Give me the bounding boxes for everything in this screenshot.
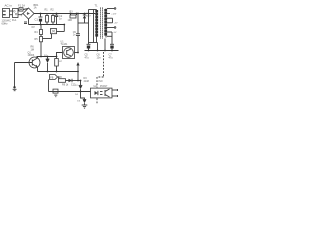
node: C1 top junction bbox=[40, 13, 42, 15]
capacitor C4 (secondary, polarized) bbox=[110, 44, 114, 50]
node: D2 junctions bbox=[47, 56, 49, 58]
resistor R3 (snubber, below rail) bbox=[70, 14, 77, 19]
wire plug to filter (upper) bbox=[10, 10, 13, 12]
wire: U1 right pin bbox=[75, 52, 79, 54]
wire: FB tag drop bbox=[48, 80, 50, 92]
wire: divider link bbox=[43, 38, 52, 40]
wire: U1 left pin to control bus bbox=[57, 53, 63, 57]
wire: primary return to bus bbox=[97, 43, 99, 51]
capacitor C2 bbox=[55, 14, 59, 25]
node: feedback junction bbox=[77, 13, 79, 15]
resistor R2 bbox=[52, 14, 55, 25]
wire: primary branch down at x88 bbox=[88, 14, 90, 45]
transformer T1 primary winding bbox=[95, 10, 98, 38]
diode D2 bbox=[46, 57, 50, 72]
svg-text:0V: 0V bbox=[32, 25, 35, 29]
wire: Q1 base bbox=[15, 62, 33, 64]
resistor R4 bbox=[40, 25, 43, 35]
wire: secondary tap 3 bbox=[107, 17, 113, 19]
node: C2 junction bbox=[56, 13, 58, 15]
node: C1 bottom junction bbox=[40, 24, 42, 26]
wire filter to fuse bbox=[18, 10, 19, 12]
wire: divider chain from return rail bbox=[63, 24, 65, 26]
wire: bridge bottom to return rail bbox=[28, 19, 30, 25]
wire: secondary tap 7 bbox=[107, 35, 112, 37]
svg-text:PC817: PC817 bbox=[100, 85, 108, 88]
wire: tap 3-4 link bbox=[112, 18, 114, 23]
svg-text:FL1: FL1 bbox=[12, 18, 17, 22]
svg-text:R7: R7 bbox=[59, 61, 63, 63]
svg-text:47u: 47u bbox=[109, 56, 114, 59]
svg-text:TL431: TL431 bbox=[61, 43, 68, 46]
svg-text:+5V: +5V bbox=[114, 23, 118, 25]
wire: emitter rail bbox=[38, 71, 79, 73]
svg-text:1M: 1M bbox=[31, 48, 34, 51]
wire: rectified DC rail bbox=[34, 13, 95, 15]
svg-text:1A: 1A bbox=[34, 7, 37, 10]
svg-text:60Hz: 60Hz bbox=[2, 21, 9, 25]
svg-text:10R: 10R bbox=[68, 19, 73, 22]
wire filter to bridge left vertex (lower) bbox=[18, 14, 23, 15]
node: tap 1 terminal bbox=[114, 8, 116, 10]
wire: opto output upper bbox=[112, 89, 118, 91]
capacitor C9 (on feedback vertical) bbox=[76, 14, 80, 53]
transformer T1 core bbox=[101, 8, 103, 39]
svg-text:R3: R3 bbox=[70, 10, 74, 13]
node: bus junctions bbox=[88, 50, 90, 52]
svg-text:T1: T1 bbox=[95, 4, 99, 8]
capacitor C1 (polarized) bbox=[39, 14, 43, 25]
isolation barrier (dashed) bbox=[97, 52, 104, 104]
AC plug P1 bbox=[3, 9, 10, 18]
capacitor C8 (startup) bbox=[51, 29, 57, 34]
svg-text:R4: R4 bbox=[35, 31, 39, 34]
wire: secondary tap 4 bbox=[107, 22, 113, 24]
node: D4 junctions bbox=[80, 80, 82, 82]
node: control bus junction bbox=[40, 56, 42, 58]
label: C1 voltage marks bbox=[24, 21, 27, 23]
svg-text:R5: R5 bbox=[35, 38, 39, 41]
svg-text:FB: FB bbox=[50, 77, 53, 80]
wire: return rail bbox=[29, 24, 65, 26]
wire: C8 to divider bbox=[51, 34, 53, 39]
svg-text:D4: D4 bbox=[75, 94, 79, 96]
wire: control bus bbox=[37, 56, 57, 58]
wire fuse to bridge top vertex bbox=[23, 9, 29, 10]
fuse F1 bbox=[19, 8, 23, 11]
control IC U1 (regulator in can) bbox=[63, 47, 75, 59]
svg-text:1V: 1V bbox=[75, 85, 78, 87]
net tag FB bbox=[50, 75, 58, 80]
node: D1 junction bbox=[84, 13, 86, 15]
wire: primary left vertical bbox=[93, 10, 95, 43]
svg-text:4148: 4148 bbox=[84, 80, 90, 83]
optocoupler U2 bbox=[91, 88, 113, 98]
node: tap 5 terminal bbox=[114, 27, 116, 29]
node: x88 junction bbox=[88, 13, 90, 15]
svg-text:AC in: AC in bbox=[5, 4, 13, 8]
svg-text:13003: 13003 bbox=[28, 54, 35, 57]
resistor R7 bbox=[55, 57, 59, 72]
node: R3 junctions bbox=[70, 13, 72, 15]
svg-text:R2: R2 bbox=[51, 9, 55, 12]
wire: opto output lower bbox=[112, 95, 118, 97]
capacitor C3 (sense, polarized) bbox=[87, 44, 91, 50]
svg-text:1n: 1n bbox=[73, 34, 76, 37]
resistor R5 bbox=[40, 35, 43, 57]
svg-text:0V: 0V bbox=[114, 32, 117, 34]
node: rail junction at x77 bbox=[77, 80, 79, 82]
svg-text:R9 1k: R9 1k bbox=[62, 83, 69, 86]
svg-text:C1: C1 bbox=[35, 18, 39, 22]
diode D4 (vertical) bbox=[79, 81, 83, 92]
svg-text:1n: 1n bbox=[59, 18, 62, 21]
earth ground (zener) bbox=[82, 105, 88, 108]
wire: secondary tap 6 bbox=[107, 31, 112, 33]
svg-text:+: + bbox=[21, 14, 23, 18]
earth ground (base return) bbox=[13, 86, 17, 91]
diode D3 (inline) bbox=[69, 79, 81, 82]
wire: FB tag to rail bbox=[58, 77, 59, 80]
line filter FL1 bbox=[13, 9, 19, 18]
wire: core drop to bus bbox=[104, 39, 106, 51]
svg-text:+12V: +12V bbox=[111, 13, 117, 15]
svg-text:10n: 10n bbox=[97, 56, 102, 59]
capacitor C10 with ground bbox=[53, 89, 58, 97]
zener D5 bbox=[81, 92, 87, 105]
svg-text:R1: R1 bbox=[45, 9, 49, 12]
wire: tap 6 drop bbox=[111, 32, 113, 44]
wire: feedback lower rail bbox=[49, 91, 91, 93]
svg-text:ISO: ISO bbox=[99, 80, 103, 83]
node: R7 top junction bbox=[56, 56, 58, 58]
wire: snubber rail bbox=[78, 22, 89, 24]
wire plug to filter (lower) bbox=[10, 14, 13, 16]
transformer T1 secondary winding bbox=[104, 9, 107, 38]
wire: secondary tap 2 bbox=[107, 13, 110, 15]
svg-text:47u: 47u bbox=[85, 56, 90, 59]
wire: secondary ground bus bbox=[85, 50, 119, 52]
wire: chain to C8 box bbox=[57, 31, 65, 33]
resistor R1 bbox=[46, 14, 49, 25]
node: emitter rail junction bbox=[77, 71, 79, 73]
supply arrow (VCC) bbox=[76, 62, 79, 81]
node: R7 emitter-rail junction bbox=[56, 71, 58, 73]
resistor R8 (inline on mid rail) bbox=[59, 79, 69, 83]
bridge rectifier BR1 bbox=[23, 8, 34, 19]
transistor Q1 bbox=[29, 57, 40, 72]
wire: secondary tap 1 bbox=[107, 8, 114, 10]
wire: primary bottom tap bbox=[96, 38, 98, 43]
svg-text:F1 2A: F1 2A bbox=[18, 4, 25, 8]
diode D1 (snubber) bbox=[83, 14, 86, 24]
svg-text:D5: D5 bbox=[77, 100, 81, 102]
wire: base return down bbox=[14, 63, 16, 88]
wire: primary top tap bbox=[89, 9, 97, 11]
wire: secondary tap 5 bbox=[107, 27, 114, 29]
